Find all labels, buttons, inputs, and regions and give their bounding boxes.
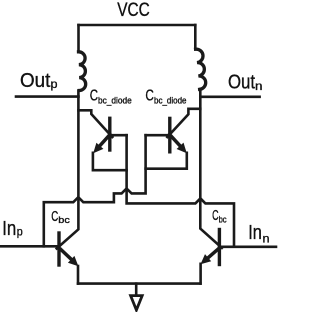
svg-text:In: In <box>2 218 16 240</box>
transistor Q3 emitter <box>101 135 111 146</box>
transistor Q3 base bar <box>108 118 111 150</box>
wire node B: Q4 base-emitter to In_p (hops over V1 and left rail) <box>44 135 146 246</box>
transistor Q4 emitter <box>170 135 181 147</box>
svg-text:Out: Out <box>20 70 51 92</box>
transistor Q4 base bar <box>168 118 171 151</box>
inductor L1 <box>79 52 86 91</box>
arrowhead Q4 emitter <box>177 143 187 154</box>
svg-text:C: C <box>90 88 98 105</box>
wire emitter bus <box>78 282 200 285</box>
transistor Q2 base bar <box>218 230 221 265</box>
svg-text:p: p <box>17 224 23 238</box>
svg-text:VCC: VCC <box>117 0 150 21</box>
wire Q2 emitter down <box>199 264 202 284</box>
wire In_p <box>0 245 57 248</box>
wire L1 to Outp node / collector rail Q1 <box>57 91 79 249</box>
svg-text:Out: Out <box>228 71 255 93</box>
svg-text:bc_diode: bc_diode <box>154 95 187 106</box>
inductor L2 <box>196 49 206 89</box>
wire Q3 emitter loop <box>93 153 127 170</box>
arrowhead Q3 emitter <box>93 143 103 154</box>
wire Q3 base lead <box>110 134 127 137</box>
wire VCC to L1 <box>77 25 80 52</box>
wire node A: Q3 base-emitter to In_n (hop over right rail) <box>127 135 234 246</box>
arrowhead Q1 emitter <box>68 256 79 266</box>
wire In_n <box>221 246 276 249</box>
ground symbol <box>131 296 143 310</box>
wire VCC to L2 <box>194 25 197 49</box>
wire L2 to Outn node / collector rail Q2 <box>200 89 222 248</box>
svg-text:C: C <box>145 87 154 104</box>
svg-text:n: n <box>263 231 270 245</box>
wire collector stub Q3 <box>79 110 113 137</box>
wire Q4 emitter loop <box>146 153 187 169</box>
svg-text:bc_diode: bc_diode <box>98 95 132 106</box>
wire Q4 base lead <box>146 134 170 137</box>
transistor Q2 emitter <box>208 249 218 258</box>
svg-text:n: n <box>255 79 263 93</box>
VCC rail <box>79 24 196 27</box>
transistor Q1 emitter <box>61 250 72 260</box>
wire Q1 emitter down <box>77 266 80 284</box>
wire collector stub Q4 <box>167 109 200 137</box>
wire ground tap <box>135 284 138 296</box>
wire Out_n <box>200 96 259 99</box>
wire Out_p <box>16 95 79 98</box>
svg-text:p: p <box>51 77 58 91</box>
svg-text:bc: bc <box>219 215 227 225</box>
arrowhead Q2 emitter <box>201 254 212 264</box>
svg-text:In: In <box>248 222 262 244</box>
svg-text:bc: bc <box>58 215 70 225</box>
transistor Q1 base bar <box>57 233 60 265</box>
